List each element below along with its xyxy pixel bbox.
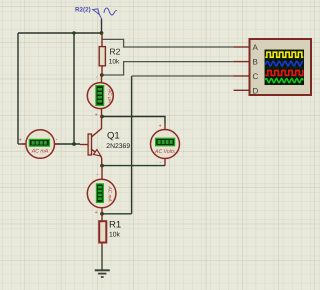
svg-text:R2(2): R2(2) [75, 6, 91, 13]
svg-text:B: B [253, 58, 258, 67]
pin A stub [234, 46, 250, 48]
node: junction R2 top [100, 31, 104, 35]
node: junction top of middle vertical [72, 31, 75, 34]
svg-text:+: + [159, 124, 162, 130]
svg-text:Q1: Q1 [107, 131, 120, 142]
svg-text:A: A [253, 43, 259, 52]
pin D stub [234, 89, 250, 91]
voltmeter AC Volts (emitter, right) [151, 124, 180, 167]
svg-text:AC Volts: AC Volts [154, 149, 175, 155]
oscilloscope screen [265, 50, 305, 86]
ground [95, 270, 110, 277]
wire: scope channel C [132, 75, 234, 77]
wire: R1 bottom to ground [101, 247, 103, 270]
trace channel D green sine [265, 79, 303, 83]
wire: middle vertical x=74 [73, 33, 75, 144]
svg-text:-: - [56, 137, 58, 143]
wire: top horizontal from left branch to R2 node [18, 32, 102, 34]
node: junction base wire [72, 142, 76, 146]
svg-text:R2: R2 [110, 47, 121, 57]
svg-text:AC µA: AC µA [107, 88, 113, 103]
wire: stub into left meter plus terminal [18, 143, 26, 145]
wire: generator lead down to node [101, 19, 103, 33]
wire: collector node to voltmeter top [102, 117, 165, 124]
trace channel B blue sine [265, 61, 303, 66]
wire: left vertical down to base ammeter [17, 33, 19, 144]
svg-text:-: - [160, 160, 162, 166]
pin C stub [234, 75, 250, 77]
node: junction collector ammeter bottom [100, 115, 104, 119]
svg-text:+: + [95, 210, 98, 216]
svg-text:+: + [95, 113, 98, 119]
node: junction R2 bottom / scope B [100, 73, 104, 77]
wire: scope channel A [102, 39, 234, 47]
node: junction emitter [100, 164, 104, 168]
trace channel C red square [265, 70, 303, 75]
oscilloscope body [234, 39, 311, 95]
svg-text:C: C [253, 72, 259, 81]
svg-text:+: + [19, 138, 22, 144]
svg-text:AC mA: AC mA [106, 186, 112, 202]
resistor R2 [99, 33, 120, 75]
ammeter AC uA (collector) [87, 75, 113, 119]
svg-text:D: D [253, 86, 259, 95]
svg-text:-: - [96, 75, 98, 81]
pin B stub [234, 61, 250, 63]
trace channel A yellow square [265, 52, 303, 57]
generator sine squiggle [104, 8, 117, 15]
resistor R1 [99, 214, 121, 247]
wire: emitter node to voltmeter bottom [102, 165, 165, 167]
ammeter AC mA (emitter, bottom) [87, 166, 116, 216]
ammeter AC mA (base, left) [19, 130, 60, 159]
svg-text:10k: 10k [109, 232, 121, 239]
svg-text:2N2369: 2N2369 [106, 143, 130, 150]
svg-text:R1: R1 [109, 220, 121, 231]
svg-text:-: - [97, 172, 99, 178]
node: junction R1 top [100, 212, 104, 216]
wire: scope channel B [102, 62, 234, 75]
wire: riser x=131.6 up to scope C level [131, 76, 133, 214]
wire: left meter to transistor base [55, 143, 80, 145]
transistor Q1 [80, 117, 130, 166]
svg-text:AC mA: AC mA [31, 149, 49, 155]
generator probe symbol [93, 9, 102, 19]
svg-text:10k: 10k [109, 59, 120, 66]
wire: R1 top node to right riser [102, 213, 132, 215]
